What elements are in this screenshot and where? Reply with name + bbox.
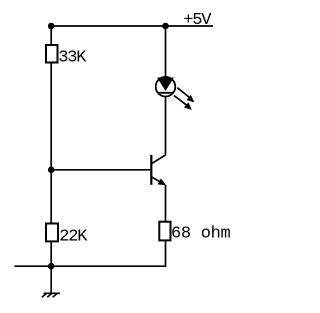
wire resistor 22K to ground node (50, 242, 52, 266)
resistor 22K (46, 224, 58, 242)
LED light arrow 2 (174, 96, 194, 113)
LED light arrow 1 (177, 88, 196, 105)
node junction top-right (162, 23, 169, 30)
ground (42, 266, 60, 297)
wire base node to resistor 22K (50, 170, 52, 223)
node junction top-left (48, 23, 55, 30)
LED D1 (156, 77, 176, 97)
transistor Q1 (151, 155, 168, 189)
wire bottom rail (14, 241, 165, 266)
wire rail to resistor 33K (50, 26, 52, 45)
node base junction (48, 167, 55, 174)
wire +5V top rail (51, 25, 213, 27)
resistor 33K (46, 45, 58, 63)
svg-text:22K: 22K (59, 228, 88, 247)
wire LED to collector (165, 97, 167, 155)
wire resistor 33K to base node (50, 64, 52, 170)
resistor 68 ohm (159, 222, 170, 241)
node ground junction (48, 263, 55, 270)
svg-text:68 ohm: 68 ohm (171, 225, 231, 244)
wire emitter to resistor 68 ohm (165, 185, 167, 221)
svg-text:+5V: +5V (183, 11, 212, 30)
wire base (51, 169, 151, 171)
svg-text:33K: 33K (58, 48, 87, 67)
wire rail to LED (165, 26, 167, 78)
